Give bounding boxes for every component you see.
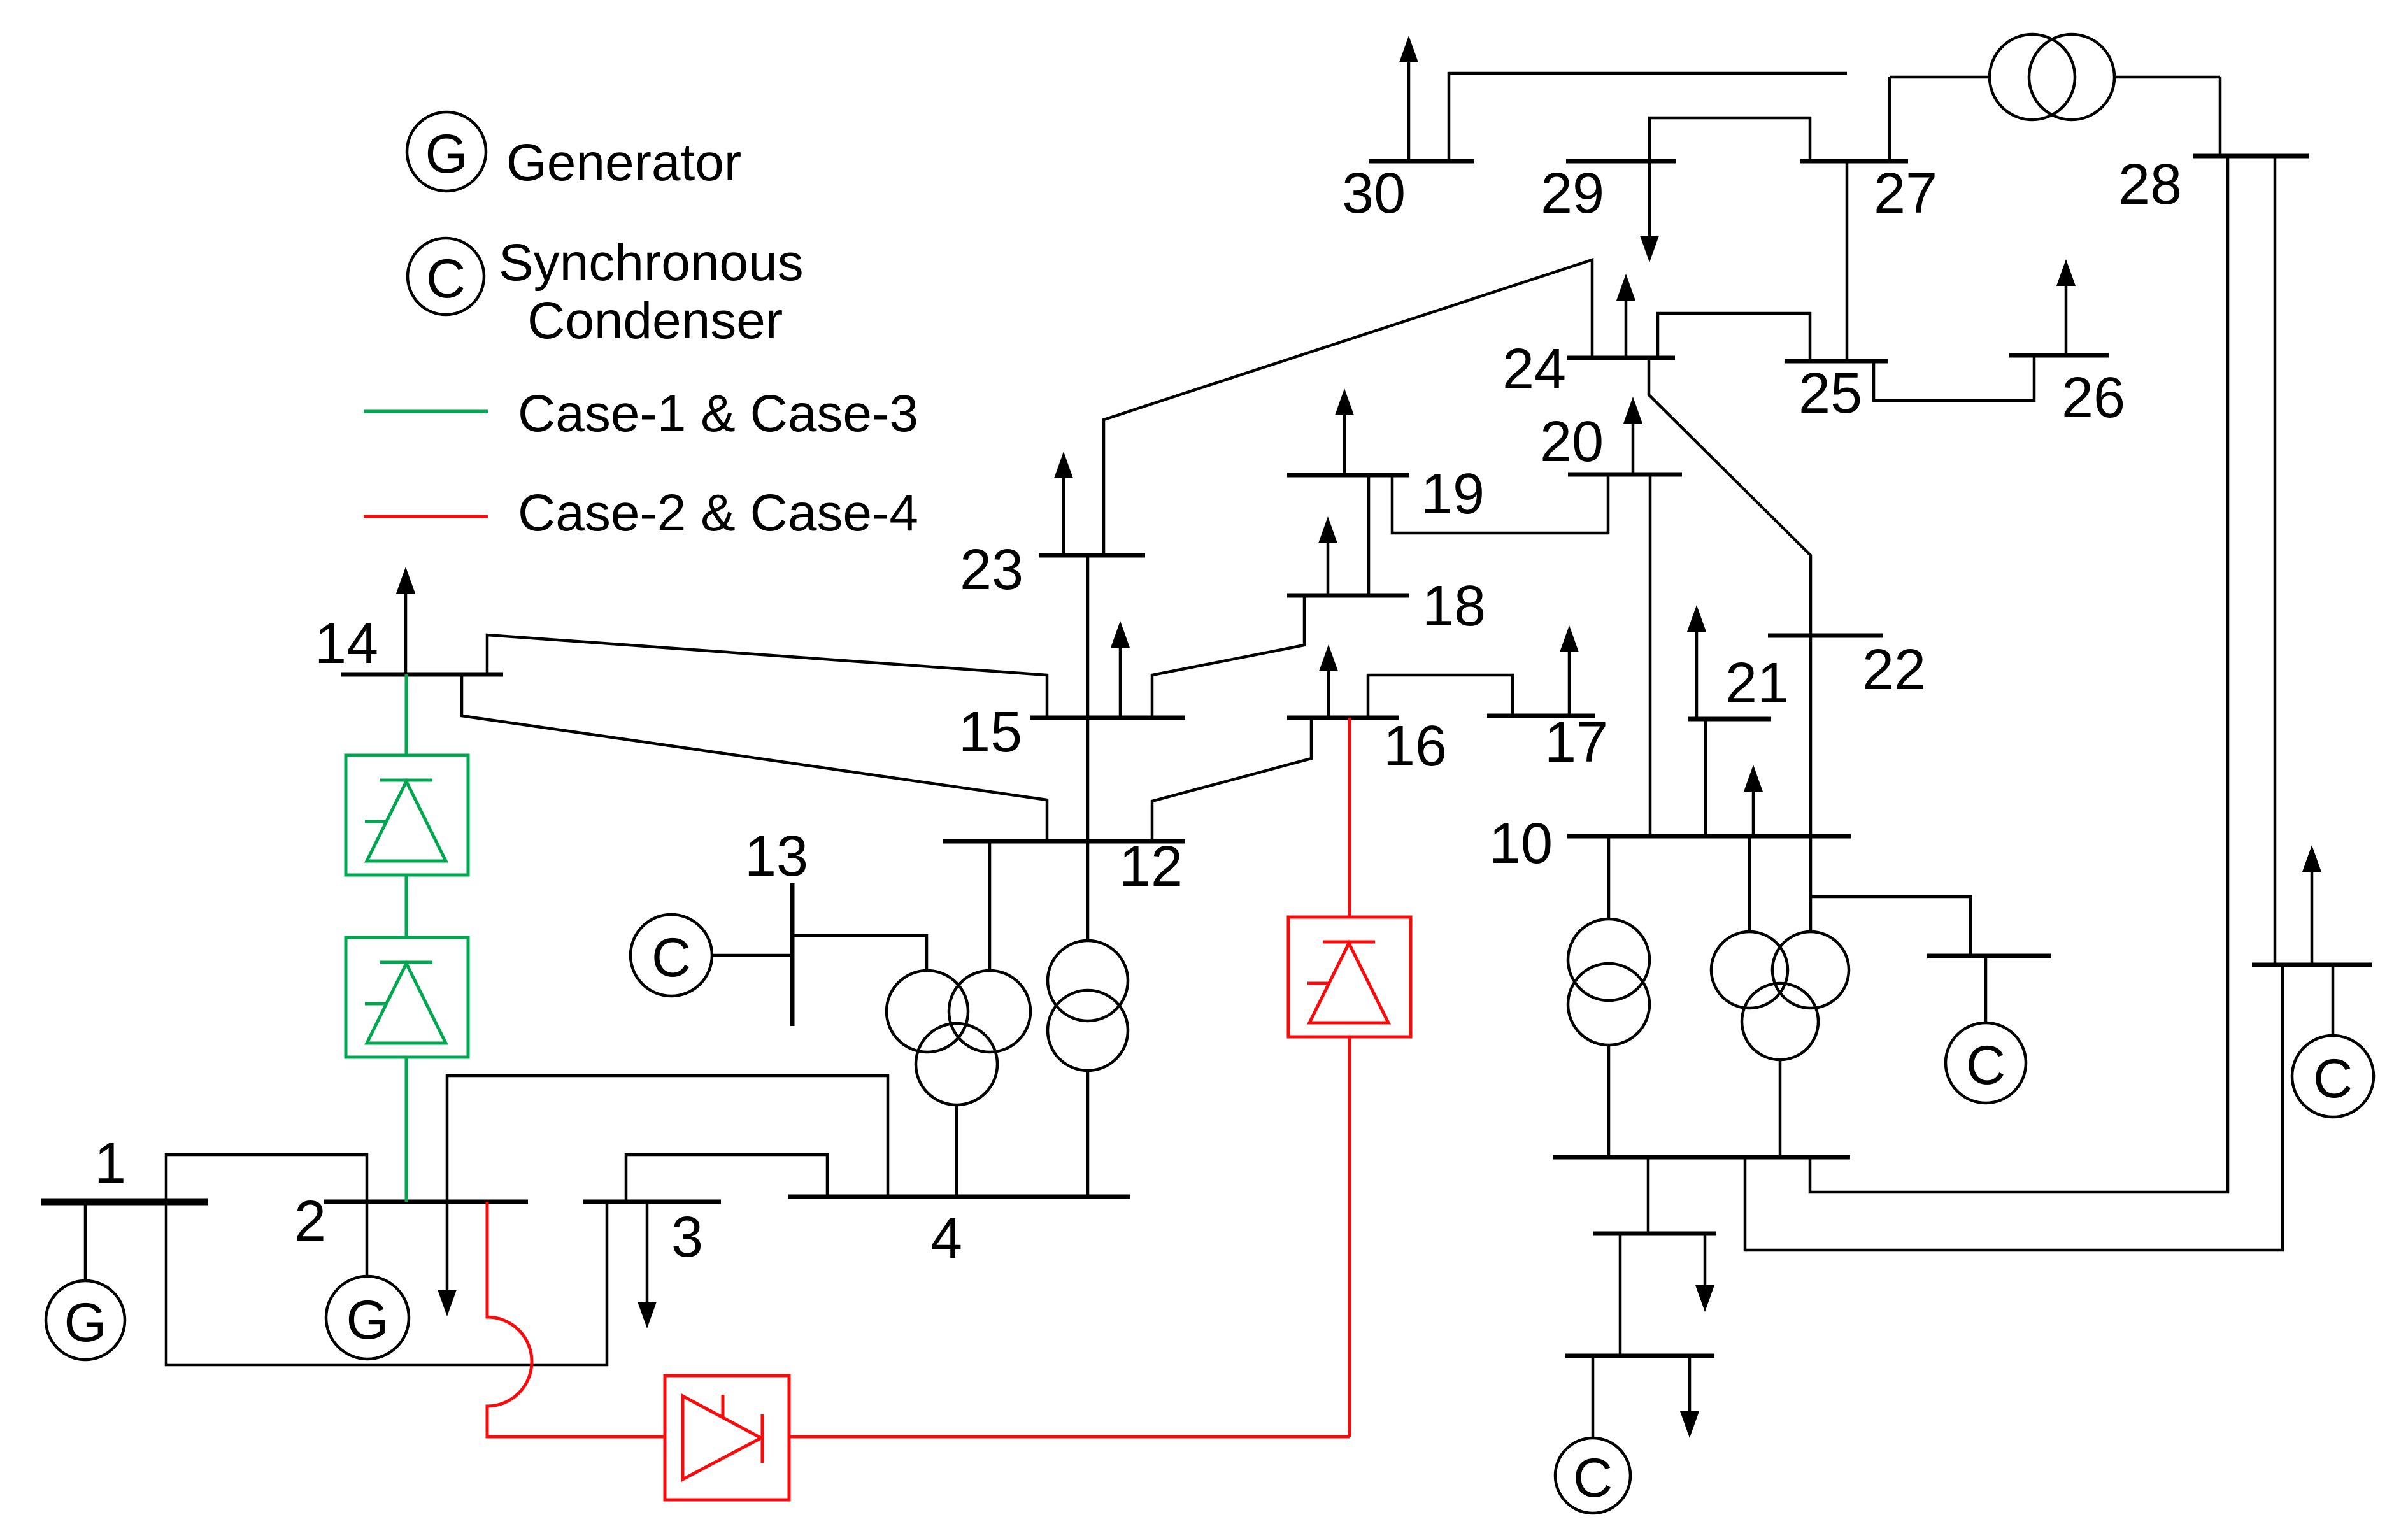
svg-text:10: 10 [1489,812,1553,876]
wire line 19-20 [1392,474,1608,533]
load arrow bus 21 (up) [1695,629,1699,719]
bus 30 [1369,159,1474,164]
wire line 12-16 [1152,718,1311,841]
bus 23 [1039,553,1145,558]
synchronous condenser C at bus 13 [712,954,792,957]
wire line 15-18 [1152,595,1304,718]
bus 28 [2193,154,2309,159]
wire line 10-21 [1704,719,1707,836]
svg-text:14: 14 [315,612,378,676]
svg-text:15: 15 [958,701,1022,764]
wire line 1-3 [166,1202,607,1365]
transformer 27-28 (two windings horizontal) [1888,77,1891,161]
wire red HVDC link from bus 2 with hop over line 1-3 [487,1202,665,1437]
wire line 25-26 [1874,355,2034,401]
bus 22 [1768,634,1883,638]
svg-text:C: C [2313,1048,2353,1109]
converter diode box (red, right-pointing) [665,1376,789,1500]
converter valve box 1 (green) [346,755,468,875]
bus 7 (unlabeled) [1593,1232,1716,1236]
bus 11 (unlabeled) [1927,954,2051,958]
wire green link between boxes [405,875,408,937]
wire line 12-14 [462,674,1047,841]
wire line 23-24 [1104,260,1592,555]
bus 2 [324,1200,528,1204]
svg-text:C: C [1573,1448,1613,1509]
wire green HVDC link bus14 side [405,674,408,755]
synchronous condenser C at bus 5 [1592,1356,1595,1438]
generator G at bus 1 [84,1202,87,1281]
load arrow bus 16 (up) [1327,669,1330,718]
load arrow bus 18 (up) [1327,541,1330,595]
wire line 22-24 and 10-22 [1649,358,1811,836]
bus 21 [1688,717,1771,722]
bus 25 [1785,359,1888,364]
svg-text:1: 1 [94,1132,126,1195]
wire line 24-25 [1658,313,1810,361]
svg-text:Case-1 & Case-3: Case-1 & Case-3 [518,385,918,443]
svg-text:G: G [346,1290,389,1351]
load arrow bus 7 (down) [1704,1234,1707,1288]
wire bus 11 branch from transformer [1811,897,1970,956]
wire line 27-30 [1449,73,1847,161]
svg-text:28: 28 [2118,153,2182,217]
bus 26 [2009,353,2109,358]
transformer 4-12-13 (three windings) [887,971,968,1052]
bus 17 [1487,714,1595,718]
wire green HVDC link bus2 side [405,1057,408,1202]
load arrow bus 10 (up) [1752,789,1755,836]
wire line 15-23 and 12-15 (vertical) [1086,555,1090,841]
wire line 6-7 [1647,1157,1650,1234]
svg-text:18: 18 [1422,574,1486,638]
svg-text:13: 13 [744,825,808,888]
bus 24 [1567,356,1675,360]
load arrow bus 30 (up) [1407,60,1411,161]
bus 4 [788,1195,1130,1199]
load arrow bus 14 (up) [404,591,408,674]
wire line 5-7 [1619,1234,1622,1356]
svg-text:21: 21 [1725,652,1789,715]
wire red link middle section [789,1435,1350,1439]
bus 1 (thick bar) [41,1199,208,1206]
transformer 6-10 (two windings) [1607,836,1611,919]
wire line 14-15 [487,635,1047,718]
svg-text:12: 12 [1119,835,1183,899]
svg-text:C: C [426,248,466,310]
load arrow bus 17 (up) [1568,650,1571,716]
svg-text:Synchronous: Synchronous [499,234,804,292]
bus 10 [1567,834,1851,839]
load arrow bus 3 (down) [646,1202,649,1304]
wire line 6-8 [1745,965,2283,1250]
wire line 27-29 [1649,118,1810,161]
load arrow bus 29 (down) [1648,161,1651,238]
wire line 13 to three-winding transformer [792,936,927,971]
wire line 18-19 [1367,475,1371,595]
load arrow bus 2 (down) [446,1202,449,1292]
legend generator symbol [407,112,486,191]
load arrow bus 20 (up) [1632,421,1635,474]
load arrow bus 5 (down) [1688,1356,1692,1414]
load arrow bus 19 (up) [1343,413,1346,475]
svg-text:C: C [652,927,691,988]
converter valve box 2 (green) [346,937,468,1057]
svg-text:23: 23 [960,538,1023,602]
wire line 10-20 [1649,474,1652,836]
legend synchronous condenser symbol [408,238,484,315]
svg-text:30: 30 [1342,162,1406,225]
bus 19 [1287,473,1409,478]
wire red link bus16 side [1348,718,1351,917]
transformer 6-10-11 (three windings) [1711,932,1788,1008]
wire line 6-28 [1810,156,2228,1192]
svg-text:G: G [64,1292,107,1353]
bus 12 [943,839,1185,844]
legend green line Case-1 & Case-3 [364,410,488,413]
svg-text:3: 3 [671,1206,703,1269]
transformer 4-12 (two windings) [1086,841,1090,941]
svg-text:26: 26 [2062,366,2125,430]
svg-text:G: G [425,124,468,185]
bus 27 [1800,159,1908,164]
svg-text:4: 4 [930,1207,962,1271]
wire line 1-2 [166,1155,367,1202]
svg-text:16: 16 [1383,715,1447,778]
svg-text:C: C [1966,1035,2005,1096]
load arrow bus 15 (up) [1119,645,1122,718]
svg-text:24: 24 [1502,338,1566,401]
wire line 3-4 [626,1155,827,1202]
svg-text:27: 27 [1874,162,1937,225]
wire line 8-28 [2274,156,2277,965]
generator G at bus 2 [366,1202,369,1276]
bus 3 [583,1200,721,1204]
wire line 2-4 [447,1076,888,1202]
svg-text:Generator: Generator [506,134,741,192]
load arrow bus 24 (up) [1625,298,1628,358]
wire line 25-27 [1846,161,1849,361]
svg-text:19: 19 [1421,462,1485,526]
bus 16 [1287,716,1399,720]
legend red line Case-2 & Case-4 [364,515,488,518]
bus 20 [1568,473,1682,477]
wire line 16-17 [1368,675,1513,718]
synchronous condenser C at bus 11 [1984,956,1988,1023]
converter valve box (red, up-pointing) at bus 16 [1288,917,1411,1037]
bus 18 [1287,594,1409,598]
load arrow bus 8 (up) [2311,869,2314,965]
svg-text:Condenser: Condenser [527,292,783,350]
synchronous condenser C at bus 8 [2332,965,2335,1036]
svg-text:17: 17 [1544,711,1608,774]
load arrow bus 26 (up) [2065,283,2068,355]
svg-text:2: 2 [294,1190,326,1253]
svg-text:29: 29 [1541,162,1604,225]
bus 5 (unlabeled) [1565,1354,1714,1358]
bus 15 [1030,716,1185,720]
bus 13 (vertical bar) [790,883,795,1026]
load arrow bus 23 (up) [1062,476,1065,555]
bus 14 [341,673,503,677]
bus 6 (unlabeled) [1553,1155,1850,1160]
svg-text:25: 25 [1799,362,1862,425]
bus 8 (unlabeled) [2252,963,2372,967]
svg-text:20: 20 [1540,410,1604,474]
svg-text:Case-2 & Case-4: Case-2 & Case-4 [518,484,918,542]
svg-text:22: 22 [1862,638,1926,702]
bus 29 [1566,159,1676,164]
